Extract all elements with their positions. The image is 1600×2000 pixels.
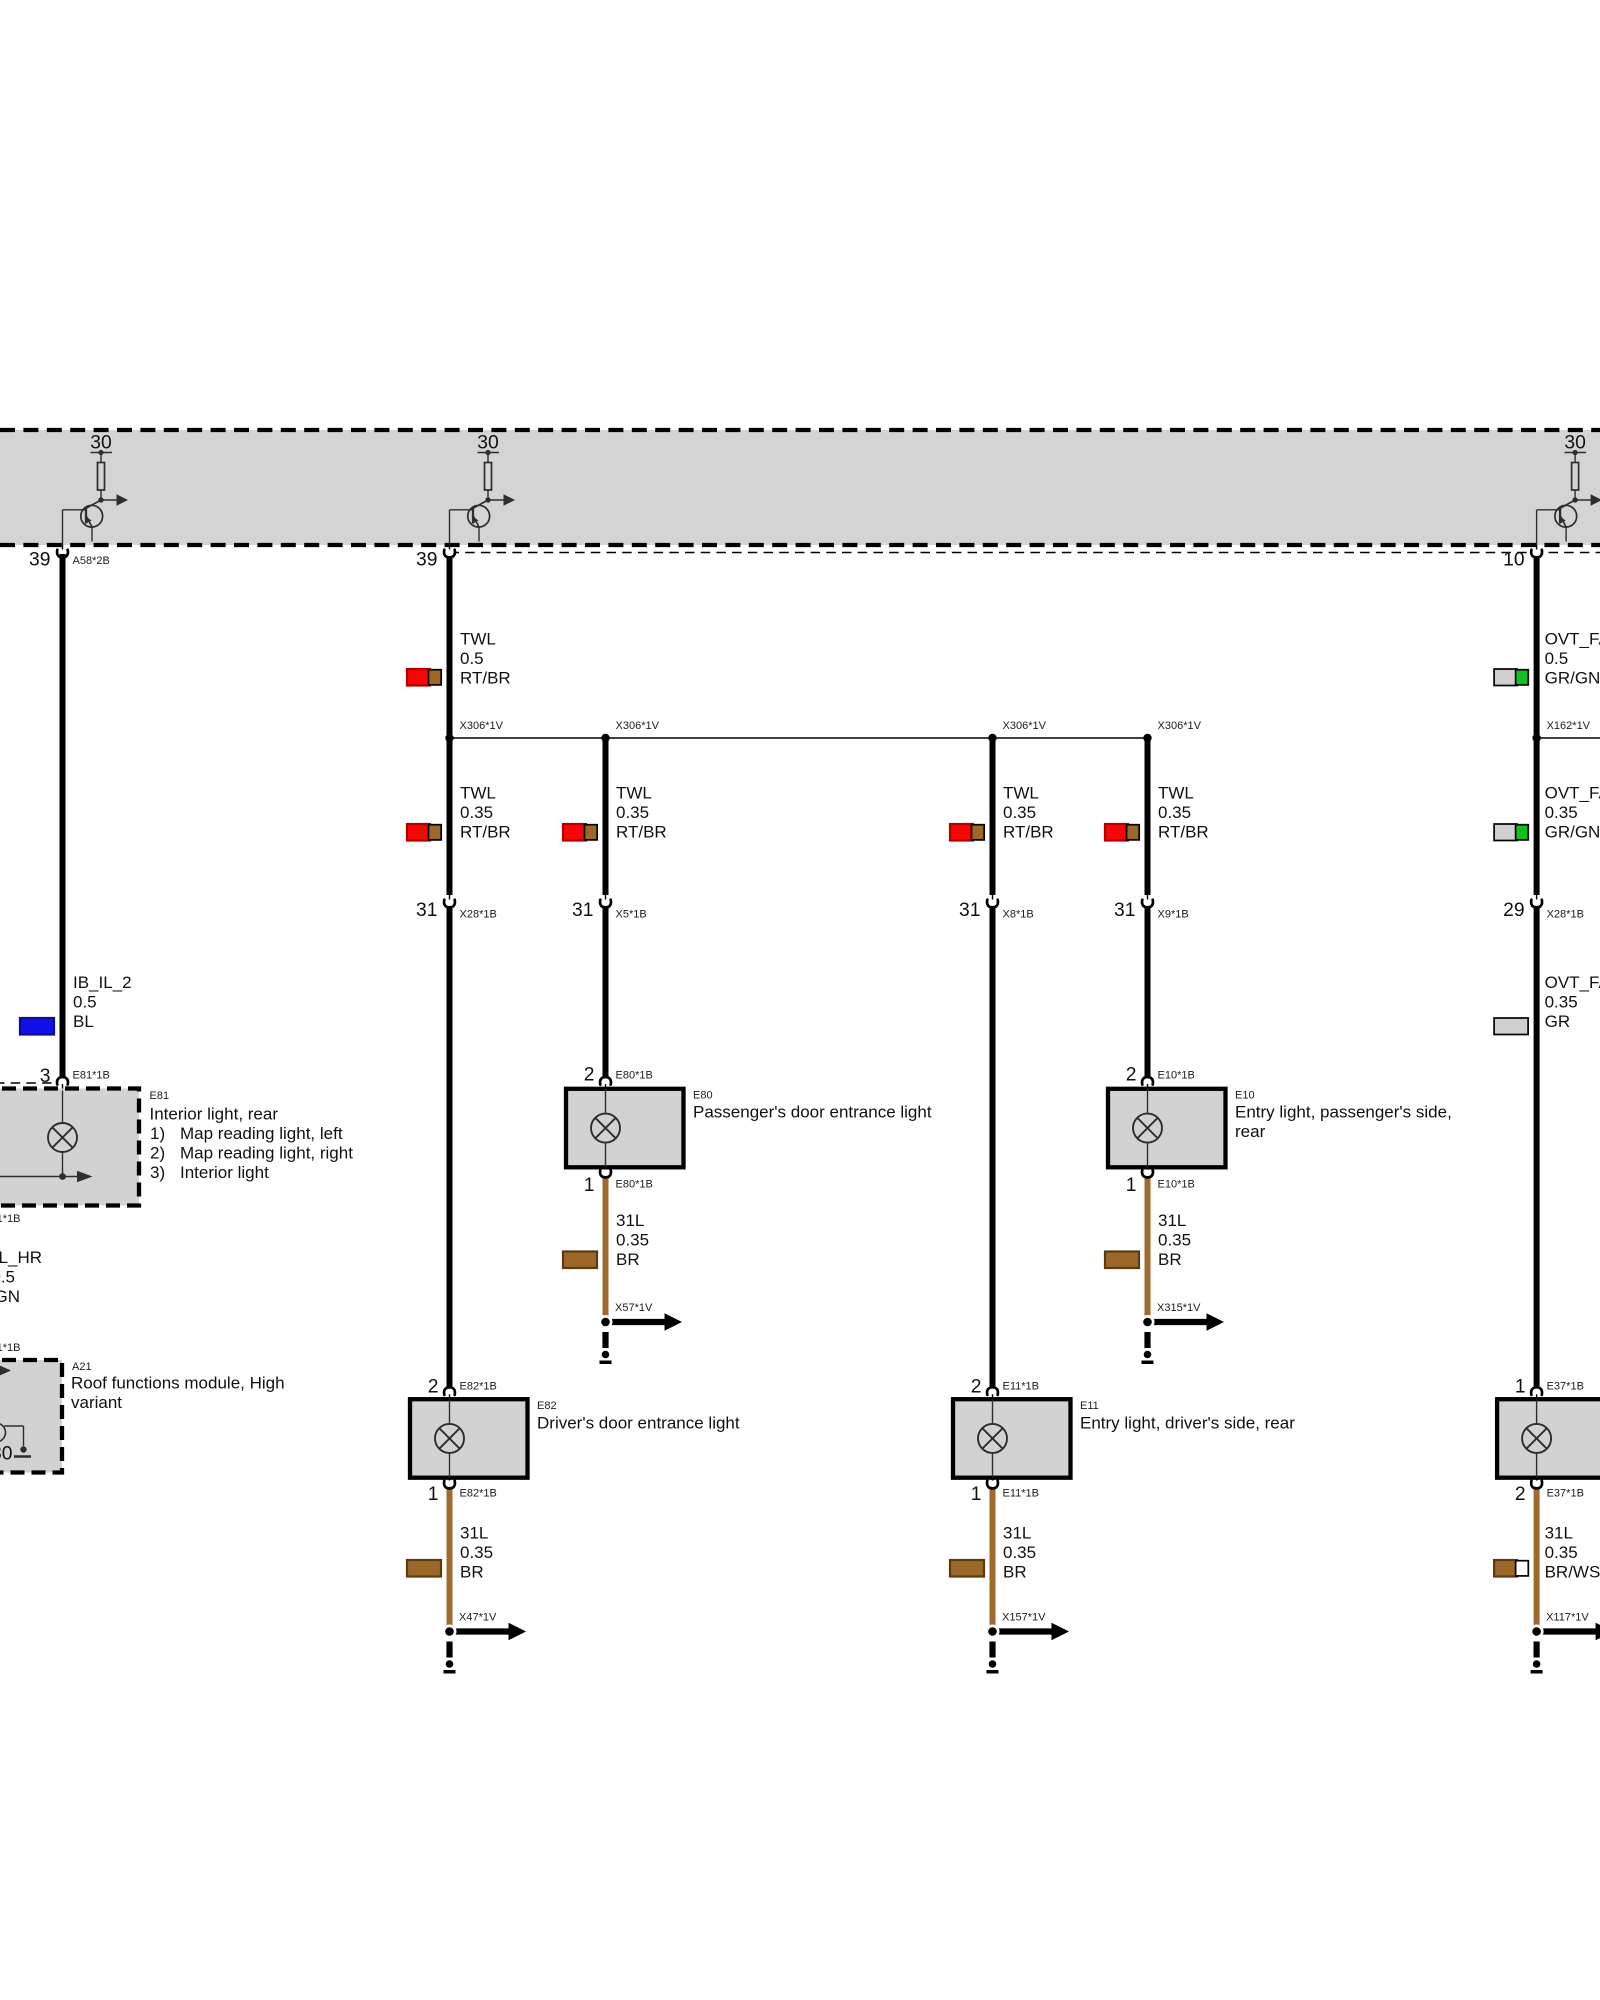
svg-text:E80: E80 [693,1090,713,1102]
svg-text:X28*1B: X28*1B [1547,909,1584,921]
svg-text:E11*1B: E11*1B [1003,1488,1040,1500]
svg-text:E80*1B: E80*1B [616,1070,653,1082]
svg-text:1: 1 [1126,1175,1137,1196]
svg-text:31: 31 [416,900,437,921]
svg-text:31L: 31L [1003,1524,1031,1543]
svg-text:X5*1B: X5*1B [616,909,647,921]
svg-text:2): 2) [150,1143,165,1162]
svg-text:1: 1 [1515,1377,1526,1398]
svg-text:2: 2 [971,1377,982,1398]
svg-text:A58*2B: A58*2B [73,555,110,567]
svg-text:X117*1V: X117*1V [1546,1612,1589,1624]
svg-text:RT/BR: RT/BR [460,668,511,687]
svg-text:TWL: TWL [460,784,496,803]
svg-text:Entry light, driver's side, re: Entry light, driver's side, rear [1080,1414,1295,1433]
svg-text:GR/GN: GR/GN [1545,668,1600,687]
svg-text:E80*1B: E80*1B [616,1179,653,1191]
svg-text:E81*1B: E81*1B [0,1213,21,1225]
svg-text:Map reading light, left: Map reading light, left [180,1124,343,1143]
svg-text:0.5: 0.5 [1545,649,1569,668]
svg-text:X162*1V: X162*1V [1547,720,1591,732]
svg-text:E81: E81 [150,1090,170,1102]
svg-text:E82*1B: E82*1B [460,1488,497,1500]
svg-text:E37*1B: E37*1B [1547,1381,1584,1393]
svg-text:0.5: 0.5 [0,1267,15,1286]
svg-text:31: 31 [959,900,980,921]
svg-text:Entry light, passenger's side,: Entry light, passenger's side, [1235,1103,1452,1122]
svg-text:31L: 31L [1158,1211,1186,1230]
svg-text:0.35: 0.35 [1003,803,1036,822]
svg-text:X9*1B: X9*1B [1158,909,1189,921]
svg-text:BR: BR [1158,1250,1182,1269]
svg-text:BL: BL [73,1012,94,1031]
svg-text:E10: E10 [1235,1090,1255,1102]
svg-text:Map reading light, right: Map reading light, right [180,1143,353,1162]
svg-text:Interior light: Interior light [180,1163,269,1182]
svg-text:0.35: 0.35 [1158,803,1191,822]
svg-text:31L: 31L [1545,1524,1573,1543]
svg-text:0.5: 0.5 [460,649,484,668]
svg-text:0.35: 0.35 [1158,1230,1191,1249]
svg-text:29: 29 [1503,900,1524,921]
svg-text:X306*1V: X306*1V [616,720,660,732]
svg-text:Roof functions module, High: Roof functions module, High [71,1374,285,1393]
svg-text:2: 2 [584,1065,595,1086]
svg-text:GN: GN [0,1287,20,1306]
svg-text:Passenger's door entrance ligh: Passenger's door entrance light [693,1103,932,1122]
svg-text:X157*1V: X157*1V [1002,1612,1046,1624]
svg-text:1): 1) [150,1124,165,1143]
svg-text:E82: E82 [537,1400,557,1412]
svg-text:RT/BR: RT/BR [1158,822,1209,841]
svg-text:E37*1B: E37*1B [1547,1488,1584,1500]
svg-text:X8*1B: X8*1B [1003,909,1034,921]
svg-text:GR/GN: GR/GN [1545,822,1600,841]
svg-text:variant: variant [71,1393,122,1412]
svg-text:BR/WS: BR/WS [1545,1562,1600,1581]
svg-text:A21: A21 [72,1361,92,1373]
svg-text:E11: E11 [1080,1400,1099,1412]
svg-text:10: 10 [1503,550,1524,571]
svg-text:X28*1B: X28*1B [460,909,497,921]
svg-text:0.35: 0.35 [1545,992,1578,1011]
svg-text:0.5: 0.5 [73,992,97,1011]
svg-text:Interior light, rear: Interior light, rear [150,1105,279,1124]
svg-text:0.35: 0.35 [460,803,493,822]
svg-text:GR: GR [1545,1012,1571,1031]
svg-text:31: 31 [572,900,593,921]
svg-text:X306*1V: X306*1V [1003,720,1047,732]
svg-text:0.35: 0.35 [616,803,649,822]
svg-text:31: 31 [1114,900,1135,921]
svg-text:X57*1V: X57*1V [615,1302,653,1314]
svg-text:rear: rear [1235,1122,1266,1141]
svg-text:2: 2 [1515,1484,1526,1505]
svg-text:2: 2 [1126,1065,1137,1086]
svg-text:0.35: 0.35 [1545,803,1578,822]
svg-text:1: 1 [428,1484,439,1505]
svg-text:BR: BR [460,1562,484,1581]
svg-text:1: 1 [971,1484,982,1505]
svg-text:RT/BR: RT/BR [460,822,511,841]
svg-text:0.35: 0.35 [1545,1543,1578,1562]
svg-text:E82*1B: E82*1B [460,1381,497,1393]
svg-text:TWL: TWL [616,784,652,803]
svg-text:0.35: 0.35 [616,1230,649,1249]
svg-text:A21*1B: A21*1B [0,1342,21,1354]
svg-text:E81*1B: E81*1B [73,1070,110,1082]
svg-text:X306*1V: X306*1V [460,720,504,732]
svg-text:OVT_FA: OVT_FA [1545,630,1600,649]
svg-text:TWL: TWL [1003,784,1039,803]
svg-text:1: 1 [584,1175,595,1196]
svg-text:E10*1B: E10*1B [1158,1070,1195,1082]
svg-text:31L: 31L [460,1524,488,1543]
svg-text:0.35: 0.35 [1003,1543,1036,1562]
svg-text:0.35: 0.35 [460,1543,493,1562]
svg-text:TWL: TWL [460,630,496,649]
svg-text:3): 3) [150,1163,165,1182]
svg-text:2: 2 [428,1377,439,1398]
svg-text:RT/BR: RT/BR [616,822,667,841]
svg-text:BR: BR [616,1250,640,1269]
svg-text:39: 39 [29,550,50,571]
svg-text:OVT_FA: OVT_FA [1545,784,1600,803]
svg-text:RT/BR: RT/BR [1003,822,1054,841]
svg-text:Driver's door entrance light: Driver's door entrance light [537,1414,740,1433]
svg-text:31L: 31L [616,1211,644,1230]
svg-text:X47*1V: X47*1V [459,1612,497,1624]
svg-text:BR: BR [1003,1562,1027,1581]
svg-text:39: 39 [416,550,437,571]
svg-text:IB_IL_2: IB_IL_2 [73,973,132,992]
svg-text:TWL: TWL [1158,784,1194,803]
svg-text:X315*1V: X315*1V [1157,1302,1201,1314]
svg-text:E11*1B: E11*1B [1003,1381,1040,1393]
svg-text:E10*1B: E10*1B [1158,1179,1195,1191]
svg-text:IB_IL_HR: IB_IL_HR [0,1248,42,1267]
svg-text:3: 3 [40,1066,51,1087]
svg-text:30: 30 [0,1444,13,1465]
svg-text:X306*1V: X306*1V [1158,720,1202,732]
svg-text:OVT_FA: OVT_FA [1545,973,1600,992]
